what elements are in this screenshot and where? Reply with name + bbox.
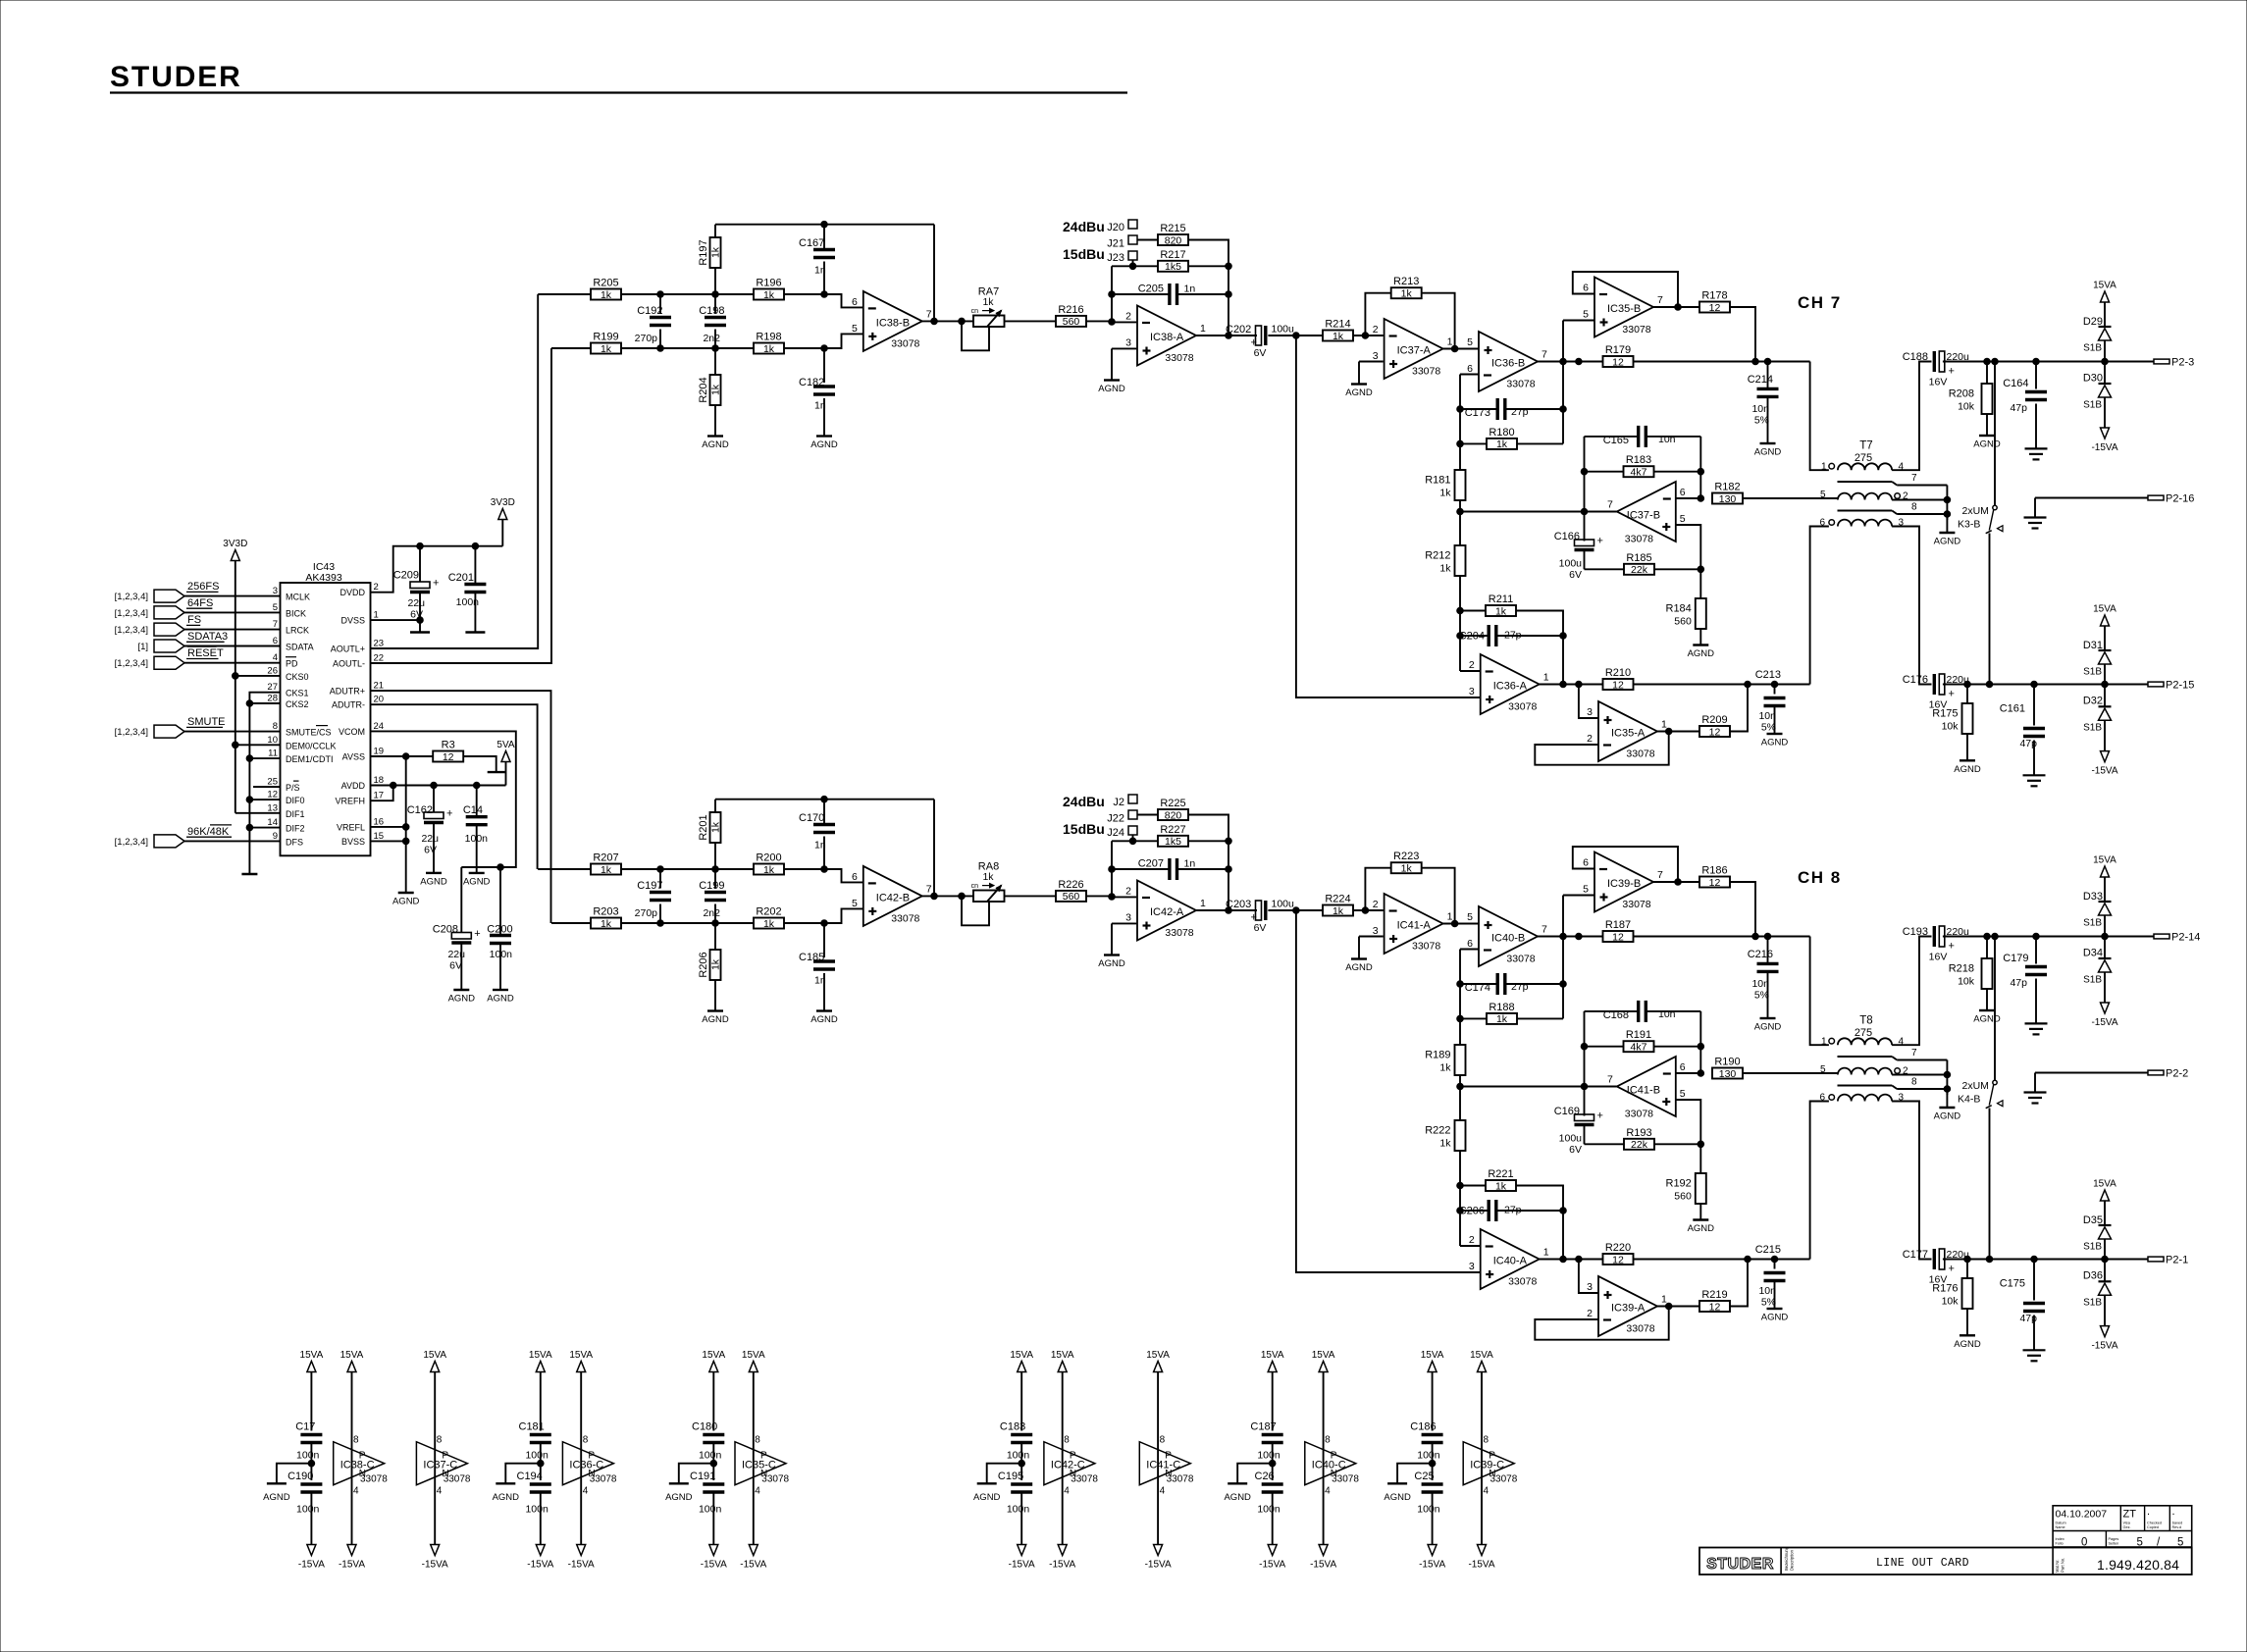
wire output: [922, 320, 973, 322]
wire: [1137, 814, 1158, 816]
svg-text:IC42-B: IC42-B: [876, 892, 910, 903]
svg-text:C173: C173: [1465, 407, 1490, 419]
IC43 pin 5 BICK: [273, 602, 306, 619]
svg-text:12: 12: [1612, 1254, 1624, 1265]
ground AGND: [493, 1464, 541, 1503]
svg-text:FS: FS: [187, 614, 201, 626]
IC U-IC43 AK4393 body: [281, 561, 371, 855]
power 15VA: [2093, 855, 2116, 903]
power 15VA: [702, 1350, 725, 1431]
resistor R180: [1460, 427, 1563, 450]
op-amp IC38-A: [1125, 306, 1206, 366]
junction: [1226, 291, 1232, 298]
wire: [1005, 320, 1057, 322]
wire: [1892, 1102, 1931, 1260]
junction: [402, 753, 409, 760]
junction: [2031, 681, 2038, 688]
svg-text:9: 9: [273, 831, 278, 842]
label tiny: [2147, 1506, 2162, 1529]
resistor R212: [1425, 545, 1465, 576]
svg-text:12: 12: [1612, 679, 1624, 691]
svg-text:3V3D: 3V3D: [223, 539, 247, 549]
svg-text:1k: 1k: [710, 246, 722, 258]
wire: [1112, 896, 1136, 898]
svg-text:C214: C214: [1748, 374, 1773, 386]
power -15VA: [2091, 1326, 2117, 1352]
svg-text:CH 8: CH 8: [1798, 868, 1842, 887]
wire: [784, 293, 824, 295]
power -15VA: [1259, 1545, 1285, 1571]
IC43 pin 8 SMUTE/CS: [273, 721, 332, 738]
svg-text:IC38-B: IC38-B: [876, 317, 910, 329]
svg-text:R3: R3: [442, 740, 455, 751]
resistor R218: [1949, 937, 1993, 990]
wire BVSS: [371, 840, 406, 842]
wire: [784, 922, 824, 924]
svg-text:C187: C187: [1250, 1421, 1276, 1433]
wire: [1086, 320, 1112, 322]
svg-text:AGND: AGND: [1934, 537, 1961, 547]
junction: [1581, 468, 1588, 475]
svg-text:16: 16: [374, 816, 385, 827]
svg-text:IC36-C: IC36-C: [569, 1460, 603, 1471]
wire rail: [1562, 1211, 1564, 1260]
svg-text:15VA: 15VA: [529, 1350, 552, 1361]
junction: [497, 864, 504, 871]
svg-text:cn: cn: [971, 883, 979, 890]
svg-text:AGND: AGND: [463, 877, 491, 888]
svg-text:1k: 1k: [710, 384, 722, 395]
svg-text:Description: Description: [1790, 1549, 1795, 1571]
svg-text:8: 8: [353, 1435, 359, 1446]
ground AGND: [392, 893, 420, 907]
svg-text:7: 7: [926, 308, 932, 320]
svg-text:DIF2: DIF2: [286, 824, 305, 834]
junction: [402, 824, 409, 831]
svg-text:S1B: S1B: [2083, 975, 2102, 986]
svg-text:1k: 1k: [1401, 288, 1413, 300]
ground AGND: [263, 1464, 311, 1503]
svg-text:R201: R201: [698, 814, 709, 840]
capacitor C205: [1112, 284, 1228, 306]
resistor R227: [1158, 824, 1188, 848]
junction: [1362, 907, 1369, 914]
svg-text:6V: 6V: [1254, 347, 1267, 359]
wire VCOM: [371, 731, 516, 867]
svg-text:1k: 1k: [1439, 488, 1451, 499]
svg-text:IC35-A: IC35-A: [1611, 728, 1646, 740]
svg-text:R202: R202: [756, 906, 781, 918]
label 15dBu: [1063, 821, 1105, 837]
capacitor C180: [692, 1421, 724, 1481]
svg-text:-15VA: -15VA: [1310, 1560, 1336, 1571]
svg-text:1k: 1k: [982, 296, 994, 308]
jumper J24: [1107, 826, 1137, 839]
title block rotated caption: [2055, 1558, 2065, 1573]
resistor R208: [1949, 362, 1993, 415]
op-amp IC36-C: [562, 1435, 617, 1497]
svg-text:7: 7: [273, 619, 278, 630]
label tiny: [2056, 1522, 2066, 1530]
svg-text:1: 1: [1661, 719, 1667, 731]
svg-text:1k: 1k: [763, 918, 775, 930]
svg-text:560: 560: [1063, 316, 1080, 328]
junction: [1226, 263, 1232, 270]
svg-text:J21: J21: [1107, 238, 1124, 250]
wire left rail: [1111, 841, 1113, 897]
svg-text:10: 10: [267, 735, 278, 746]
svg-text:IC40-C: IC40-C: [1312, 1460, 1346, 1471]
resistor R191: [1585, 1029, 1701, 1053]
junction: [1771, 1256, 1778, 1263]
svg-text:R187: R187: [1605, 919, 1631, 931]
svg-text:Gez.: Gez.: [2123, 1525, 2131, 1529]
title LINE OUT CARD: [1876, 1557, 1969, 1570]
svg-text:12: 12: [1709, 302, 1721, 314]
wire: [1892, 1074, 1947, 1076]
wire feedback top: [715, 799, 934, 800]
svg-text:Visa: Visa: [2123, 1522, 2131, 1525]
svg-text:5VA: 5VA: [496, 740, 514, 750]
svg-text:J24: J24: [1107, 827, 1124, 839]
svg-text:C200: C200: [487, 924, 512, 936]
svg-text:R216: R216: [1058, 304, 1083, 316]
svg-text:R189: R189: [1425, 1050, 1450, 1061]
junction: [1129, 838, 1136, 845]
svg-text:22k: 22k: [1631, 564, 1648, 576]
ground AGND: [810, 398, 838, 450]
svg-text:CKS1: CKS1: [286, 689, 309, 698]
wire: [1188, 840, 1228, 842]
svg-text:5: 5: [1467, 911, 1473, 923]
svg-text:1k: 1k: [710, 958, 722, 970]
svg-text:10n: 10n: [1751, 403, 1769, 415]
resistor R181: [1425, 470, 1465, 500]
svg-text:3: 3: [1469, 686, 1475, 697]
power 15VA: [569, 1350, 593, 1545]
wire output: [1653, 306, 1699, 308]
wire: [1112, 265, 1158, 267]
capacitor C165: [1585, 426, 1701, 447]
input flag SDATA3: [137, 631, 280, 652]
svg-text:AVDD: AVDD: [341, 781, 366, 791]
wire feedback loop: [1573, 272, 1678, 307]
wire: [249, 799, 280, 800]
svg-text:2: 2: [1587, 733, 1593, 745]
resistor R204: [698, 348, 722, 405]
power 15VA: [1051, 1350, 1074, 1545]
svg-text:6V: 6V: [1254, 922, 1267, 934]
wire AOUTL+: [371, 294, 539, 648]
junction: [1293, 333, 1300, 339]
resistor R188: [1460, 1002, 1563, 1025]
capacitor C200: [487, 867, 512, 990]
junction: [1745, 1256, 1751, 1263]
svg-text:+: +: [1597, 536, 1603, 547]
connector P2-1: [2148, 1255, 2188, 1266]
diode D30: [2083, 362, 2112, 429]
svg-text:15VA: 15VA: [742, 1350, 765, 1361]
svg-text:5: 5: [1583, 884, 1589, 896]
capacitor C179: [2003, 937, 2047, 990]
capacitor C173: [1460, 398, 1563, 420]
svg-text:S1B: S1B: [2083, 400, 2102, 411]
wire: [1730, 307, 1755, 362]
label 24dBu: [1063, 219, 1105, 234]
ground AGND: [665, 1464, 713, 1503]
junction: [821, 796, 828, 802]
part number 1.949.420.84: [2097, 1557, 2179, 1573]
junction: [1964, 1256, 1971, 1263]
wire plus: [1676, 1100, 1701, 1173]
svg-text:1k: 1k: [763, 343, 775, 355]
wire: [621, 293, 754, 295]
svg-text:33078: 33078: [1412, 941, 1440, 953]
input flag FS: [115, 614, 281, 636]
capacitor C203: [1226, 899, 1294, 935]
svg-text:15: 15: [374, 831, 385, 842]
svg-text:R179: R179: [1605, 344, 1631, 356]
svg-text:33078: 33078: [1622, 324, 1650, 336]
svg-text:R224: R224: [1325, 894, 1350, 905]
svg-text:1.949.420.84: 1.949.420.84: [2097, 1557, 2179, 1573]
svg-text:33078: 33078: [1506, 954, 1535, 965]
svg-text:S1B: S1B: [2083, 723, 2102, 734]
svg-text:27: 27: [267, 682, 278, 693]
capacitor C186: [1410, 1421, 1442, 1481]
power 15VA: [2093, 1179, 2116, 1226]
capacitor C182: [799, 348, 835, 412]
capacitor C204: [1459, 625, 1563, 646]
wire feedback loop: [1535, 732, 1668, 765]
svg-text:AGND: AGND: [1761, 738, 1789, 749]
wire rail: [1459, 375, 1461, 471]
wire: [249, 702, 280, 704]
IC43 pin 14 DIF2: [267, 817, 304, 834]
power -15VA: [527, 1545, 553, 1571]
wire: [1743, 497, 1838, 499]
svg-text:6V: 6V: [449, 960, 462, 972]
svg-text:IC42-A: IC42-A: [1150, 906, 1184, 918]
svg-text:-15VA: -15VA: [298, 1560, 325, 1571]
svg-text:12: 12: [267, 790, 278, 800]
svg-text:S1B: S1B: [2083, 1242, 2102, 1253]
svg-text:-15VA: -15VA: [1145, 1560, 1172, 1571]
junction: [1576, 933, 1583, 940]
svg-text:Name: Name: [2056, 1525, 2065, 1529]
svg-text:AGND: AGND: [1754, 447, 1782, 458]
capacitor C170: [799, 800, 835, 869]
resistor R219: [1699, 1289, 1730, 1313]
capacitor C209: [393, 546, 440, 633]
svg-text:1: 1: [1447, 336, 1453, 348]
svg-text:7: 7: [926, 883, 932, 895]
power -15VA: [298, 1545, 325, 1571]
wire rail: [1459, 1075, 1461, 1120]
junction: [1752, 358, 1759, 365]
svg-text:8: 8: [755, 1435, 760, 1446]
svg-text:5: 5: [1583, 309, 1589, 321]
svg-text:20: 20: [374, 695, 385, 705]
wire rail: [1699, 437, 1701, 498]
wire minus stub: [1460, 949, 1479, 951]
svg-text:R197: R197: [698, 239, 709, 265]
svg-text:26: 26: [267, 665, 278, 676]
svg-text:CH 7: CH 7: [1798, 293, 1842, 312]
transformer T7 label: [1855, 440, 1873, 465]
IC43 pin 24 VCOM: [339, 721, 384, 737]
ground AGND: [1098, 348, 1125, 394]
svg-text:C186: C186: [1410, 1421, 1436, 1433]
ground AGND: [1754, 398, 1782, 458]
svg-text:2: 2: [1469, 659, 1475, 671]
svg-text:33078: 33078: [1412, 366, 1440, 378]
svg-text:R178: R178: [1701, 290, 1727, 302]
title block rotated caption: [1784, 1546, 1795, 1571]
resistor R205: [591, 278, 621, 301]
junction: [1457, 508, 1464, 515]
svg-text:C26: C26: [1255, 1471, 1275, 1482]
svg-text:22u: 22u: [407, 597, 425, 609]
svg-text:+: +: [1949, 689, 1955, 700]
svg-text:P/S: P/S: [286, 783, 300, 793]
ground AGND: [1954, 1309, 1981, 1350]
svg-text:ADUTR+: ADUTR+: [330, 687, 365, 697]
svg-text:12: 12: [1709, 877, 1721, 889]
junction: [2102, 681, 2109, 688]
svg-text:27p: 27p: [1504, 630, 1522, 642]
svg-text:1: 1: [1661, 1294, 1667, 1306]
diode D31: [2083, 640, 2112, 685]
svg-text:C216: C216: [1748, 949, 1773, 960]
resistor R189: [1425, 1045, 1465, 1075]
svg-text:1k5: 1k5: [1165, 836, 1181, 848]
svg-text:R226: R226: [1058, 879, 1083, 891]
wire AOUT+ to R205: [538, 293, 591, 295]
svg-text:R209: R209: [1701, 714, 1727, 726]
svg-text:7: 7: [1542, 349, 1547, 361]
svg-text:2xUM: 2xUM: [1962, 1080, 1989, 1092]
svg-text:100u: 100u: [1272, 324, 1295, 336]
svg-text:S1B: S1B: [2083, 918, 2102, 929]
svg-text:LRCK: LRCK: [286, 626, 309, 636]
wire: [2035, 1072, 2148, 1074]
connector P2-3: [2154, 357, 2194, 369]
svg-text:5: 5: [1820, 490, 1826, 500]
svg-text:6: 6: [1467, 363, 1473, 375]
svg-text:AGND: AGND: [1934, 1111, 1961, 1122]
svg-text:DFS: DFS: [286, 837, 303, 847]
wire output: [1196, 335, 1257, 336]
svg-text:AGND: AGND: [1098, 384, 1125, 394]
resistor R187: [1603, 919, 1634, 943]
junction: [712, 920, 719, 927]
svg-text:1k: 1k: [1333, 905, 1344, 917]
wire plus riser: [1579, 685, 1598, 719]
power -15VA: [2091, 1003, 2117, 1028]
svg-text:15VA: 15VA: [1261, 1350, 1284, 1361]
op-amp IC42-B: [852, 866, 932, 926]
junction: [246, 755, 253, 762]
wire: [824, 334, 863, 348]
wire: [2035, 497, 2148, 499]
capacitor C166: [1554, 512, 1603, 582]
svg-text:100n: 100n: [525, 1504, 549, 1516]
capacitor C202: [1226, 324, 1294, 360]
junction: [1986, 681, 1993, 688]
svg-text:S1B: S1B: [2083, 343, 2102, 354]
junction: [1992, 933, 1999, 940]
ground AGND: [1973, 414, 2001, 450]
resistor R190: [1712, 1057, 1743, 1080]
svg-text:AGND: AGND: [1384, 1492, 1411, 1503]
svg-text:C181: C181: [519, 1421, 545, 1433]
svg-text:47p: 47p: [2010, 402, 2027, 414]
resistor R201: [698, 800, 722, 869]
svg-text:100n: 100n: [1417, 1450, 1440, 1462]
junction: [1457, 981, 1464, 988]
svg-text:C166: C166: [1554, 531, 1580, 542]
svg-text:R188: R188: [1489, 1002, 1514, 1013]
svg-text:-15VA: -15VA: [1259, 1560, 1285, 1571]
wire: [1892, 499, 1947, 501]
junction: [821, 866, 828, 873]
svg-text:4: 4: [273, 652, 278, 663]
wire rail: [1459, 1151, 1461, 1246]
junction: [1269, 1460, 1276, 1467]
resistor R178: [1699, 290, 1730, 314]
svg-text:2xUM: 2xUM: [1962, 505, 1989, 517]
wire output: [1460, 511, 1617, 513]
svg-text:SDATA: SDATA: [286, 643, 314, 652]
svg-text:6: 6: [1467, 938, 1473, 950]
IC43 pin 20 ADUTR-: [332, 695, 384, 710]
resistor R198: [754, 332, 784, 355]
svg-text:100n: 100n: [1257, 1450, 1280, 1462]
svg-text:SDATA3: SDATA3: [187, 631, 228, 643]
svg-text:C179: C179: [2003, 953, 2028, 964]
svg-text:CKS2: CKS2: [286, 699, 309, 709]
junction: [1698, 1043, 1704, 1050]
svg-text:1k: 1k: [710, 821, 722, 833]
svg-text:R213: R213: [1393, 276, 1419, 287]
wire output: [1653, 881, 1699, 883]
power 15VA: [300, 1350, 324, 1431]
svg-text:AGND: AGND: [1688, 1223, 1715, 1234]
svg-text:J23: J23: [1107, 252, 1124, 264]
svg-text:BICK: BICK: [286, 608, 306, 618]
wire: [1810, 1102, 1829, 1260]
svg-text:C161: C161: [2000, 703, 2025, 715]
input flag 96K/48K: [115, 825, 281, 848]
junction: [1560, 981, 1567, 988]
svg-text:96K/48K: 96K/48K: [187, 826, 230, 838]
svg-text:100u: 100u: [1559, 1133, 1583, 1145]
resistor R224: [1323, 894, 1353, 917]
junction: [712, 291, 719, 298]
power -15VA: [568, 1545, 595, 1571]
svg-text:-15VA: -15VA: [568, 1560, 595, 1571]
svg-text:100n: 100n: [465, 833, 489, 845]
capacitor C168: [1585, 1001, 1701, 1022]
svg-text:C199: C199: [699, 880, 724, 892]
diode D29: [2083, 316, 2112, 362]
svg-text:22u: 22u: [447, 949, 465, 960]
svg-text:-15VA: -15VA: [2091, 1341, 2117, 1352]
svg-text:.: .: [2172, 1506, 2175, 1518]
resistor R196: [754, 278, 784, 301]
svg-text:R210: R210: [1605, 667, 1631, 679]
